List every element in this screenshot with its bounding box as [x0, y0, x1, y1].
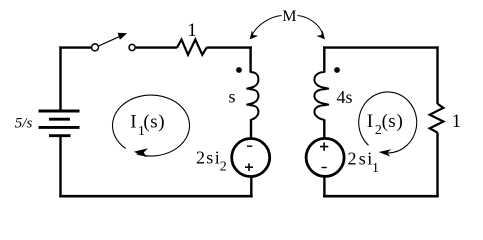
svg-text:(: ( — [143, 112, 149, 133]
coil s cusp ticks — [246, 87, 252, 106]
wire bottom right loop — [323, 195, 439, 198]
wire source to bottom left loop — [250, 176, 252, 196]
battery plate short — [49, 118, 70, 121]
plus sign bottom of left source — [245, 163, 253, 171]
svg-text:1: 1 — [372, 161, 379, 176]
resistor 1 (top) zigzag — [177, 40, 207, 55]
svg-text:1: 1 — [452, 111, 462, 132]
wire inductor to source — [250, 120, 252, 140]
svg-text:(: ( — [382, 111, 388, 132]
wire feed down to left inductor — [249, 46, 251, 72]
mesh I1 arrowhead — [134, 148, 148, 157]
wire right rail upper — [436, 46, 438, 104]
battery plate short bottom — [49, 134, 71, 137]
svg-text:): ) — [158, 112, 164, 133]
minus sign bottom of right source — [322, 167, 327, 169]
svg-text:s: s — [206, 148, 213, 168]
battery source 5/s plate long top — [39, 110, 80, 113]
svg-text:1: 1 — [187, 20, 197, 41]
wire bottom left loop — [59, 195, 252, 198]
M right arrowhead — [316, 30, 325, 39]
mesh current I1 loop arc — [113, 95, 190, 156]
svg-text:s: s — [388, 111, 395, 132]
M left arc — [253, 16, 282, 34]
plus sign top of right source — [320, 143, 328, 151]
svg-text:): ) — [397, 111, 403, 132]
inductor s coil — [247, 72, 259, 120]
inductor 4s coil — [314, 72, 328, 120]
wire right rail lower — [436, 133, 438, 198]
resistor 1 (right) zigzag — [430, 104, 444, 133]
svg-text:2: 2 — [348, 149, 357, 169]
svg-text:s: s — [229, 87, 236, 107]
svg-text:4s: 4s — [337, 87, 353, 107]
wire feed down to right inductor — [323, 46, 325, 72]
polarity dot right inductor — [334, 67, 340, 73]
M right arc — [298, 16, 323, 34]
mesh I2 arrowhead — [379, 149, 392, 156]
svg-text:5/s: 5/s — [15, 115, 33, 131]
minus sign top of left source — [247, 145, 252, 147]
dependent source 2si1 circle — [306, 138, 344, 176]
wire resistor to left-loop corner — [207, 46, 252, 48]
wire right source to bottom — [323, 176, 325, 198]
switch throw circle — [129, 44, 135, 50]
wire left rail upper — [59, 46, 61, 110]
mesh current I2 loop arc — [359, 92, 417, 153]
svg-text:2: 2 — [220, 159, 227, 174]
switch pole circle — [92, 44, 99, 51]
wire inductor to right source — [323, 120, 325, 140]
wire right loop top — [323, 46, 439, 48]
svg-text:s: s — [359, 149, 366, 169]
switch arrowhead — [118, 33, 128, 40]
wire left rail lower — [59, 137, 61, 197]
battery plate long — [39, 126, 80, 129]
coil 4s cusp ticks — [324, 87, 330, 106]
M left arrowhead — [250, 30, 259, 39]
polarity dot left inductor — [236, 67, 242, 73]
svg-text:I: I — [130, 112, 136, 133]
svg-text:M: M — [282, 8, 296, 25]
svg-text:s: s — [150, 112, 157, 133]
svg-text:2: 2 — [196, 148, 205, 168]
dependent source 2si2 circle — [232, 139, 270, 177]
wire top-left from rail to switch — [59, 46, 91, 48]
svg-text:I: I — [367, 111, 373, 132]
switch blade — [99, 36, 120, 46]
wire switch to resistor — [136, 46, 177, 48]
